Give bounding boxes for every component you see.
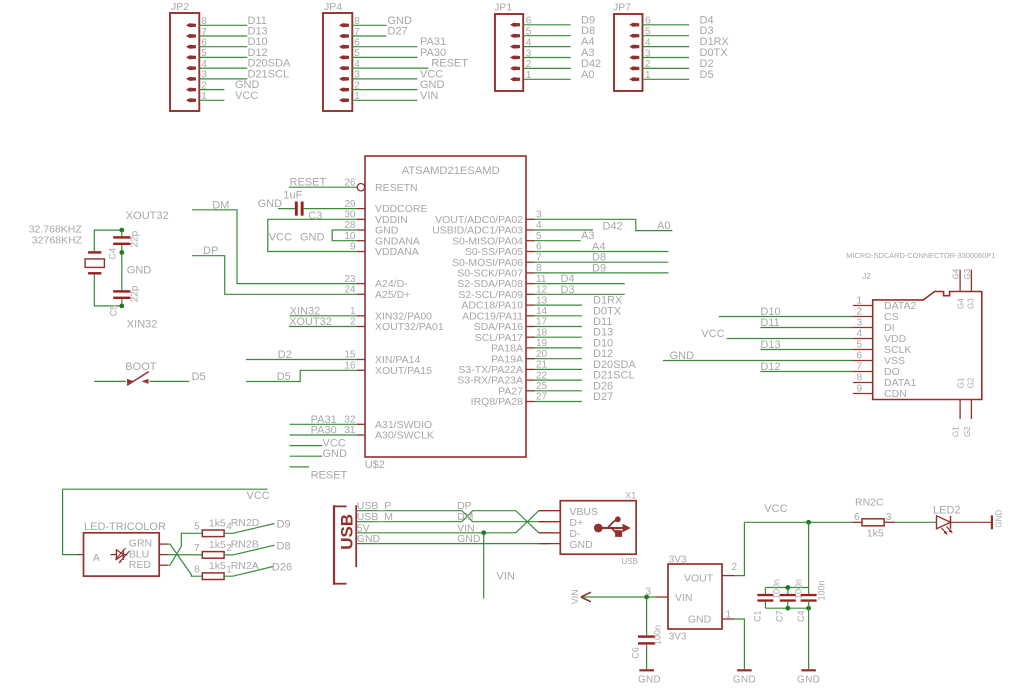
svg-text:VCC: VCC	[764, 503, 787, 515]
svg-text:7: 7	[856, 362, 862, 373]
svg-text:GND: GND	[457, 533, 481, 545]
regulator 3V3	[645, 554, 737, 642]
net A0 (JP1 pin 1)	[523, 69, 594, 81]
J2 pin 1 DATA2	[853, 296, 916, 312]
svg-text:32.768KHZ: 32.768KHZ	[29, 223, 83, 235]
svg-text:7: 7	[194, 543, 200, 554]
svg-text:D5: D5	[277, 371, 291, 383]
svg-text:4: 4	[856, 329, 862, 340]
svg-text:GND: GND	[733, 675, 756, 686]
svg-text:22p: 22p	[130, 230, 141, 247]
connector J2 MICRO-SDCARD-CONNECTOR-3300060P1	[846, 251, 995, 400]
U$2 pin 18 SCL/PA17	[475, 327, 548, 343]
svg-text:XIN32: XIN32	[127, 318, 158, 330]
svg-text:D42: D42	[603, 221, 623, 233]
net RESET (JP4 pin 4)	[352, 58, 468, 70]
U$2 pin 8 S0-SCK/PA07	[457, 263, 542, 279]
net D20SDA (JP2 pin 4)	[199, 58, 291, 70]
net D20SDA (U$2 right)	[535, 359, 637, 371]
svg-text:G4: G4	[952, 268, 961, 279]
net D3 (U$2 pin 12)	[535, 284, 625, 296]
U$2 pin 10 GNDANA	[344, 231, 420, 247]
svg-text:DP: DP	[203, 245, 218, 257]
net D1RX (JP7 pin 4)	[643, 36, 730, 48]
svg-text:RESET: RESET	[311, 470, 348, 482]
svg-text:D2: D2	[278, 349, 292, 361]
J2 pin G3 (top)	[963, 268, 976, 309]
wire VOUT to VCC rail	[734, 522, 744, 575]
svg-text:A0: A0	[657, 220, 670, 232]
svg-text:2: 2	[732, 562, 738, 573]
wire VIN down	[484, 533, 515, 599]
svg-text:RESETN: RESETN	[375, 182, 418, 194]
svg-text:1: 1	[725, 610, 731, 621]
U$2 pin 19 PA18A	[491, 338, 547, 354]
capacitor C4b 100n	[796, 580, 826, 622]
svg-text:GND: GND	[994, 510, 1003, 528]
svg-text:GND: GND	[300, 232, 325, 244]
svg-text:1uF: 1uF	[283, 190, 302, 202]
svg-text:3: 3	[886, 512, 892, 523]
svg-text:3V3: 3V3	[669, 631, 687, 642]
J2 pin 5 SCLK	[853, 340, 911, 356]
node GND junction (crystal)	[119, 250, 151, 276]
net VCC (LED section top)	[63, 489, 270, 554]
svg-text:C7: C7	[775, 610, 785, 622]
svg-text:RN2B: RN2B	[231, 539, 259, 551]
net VIN (JP4 pin 1)	[352, 90, 438, 102]
connector JP4	[323, 1, 360, 111]
U$2 pin 14 ADC19/PA11	[462, 306, 547, 322]
net D4 (JP7 pin 6)	[643, 14, 714, 26]
U$2 pin 6 S0-SS/PA05	[465, 242, 542, 258]
svg-text:100n: 100n	[816, 580, 826, 600]
svg-text:PA30: PA30	[311, 425, 337, 437]
svg-text:LED-TRICOLOR: LED-TRICOLOR	[84, 521, 166, 533]
svg-text:XOUT32/PA01: XOUT32/PA01	[375, 321, 444, 333]
U$2 pin 16 XOUT/PA15	[344, 361, 432, 377]
svg-text:G1: G1	[952, 426, 961, 437]
net GND (JP4 pin 8)	[352, 15, 412, 27]
net USB_P / DP	[356, 500, 549, 522]
svg-text:6: 6	[854, 512, 860, 523]
net D9 (RN2D)	[224, 519, 290, 534]
svg-text:USB: USB	[338, 514, 357, 550]
net RESET to U$2 pin 26	[289, 177, 357, 189]
svg-text:C3: C3	[308, 210, 322, 222]
svg-text:3: 3	[856, 318, 862, 329]
svg-text:IRQ8/PA28: IRQ8/PA28	[471, 396, 523, 408]
node VCC rail junction	[806, 520, 811, 525]
node cap bank top junction	[785, 585, 790, 590]
net D26 (U$2 right)	[535, 380, 614, 392]
svg-text:C1: C1	[752, 610, 762, 622]
svg-text:XOUT32: XOUT32	[126, 210, 169, 222]
net D11 (J2 DI)	[760, 317, 853, 329]
net A4 (U$2 pin 6)	[535, 241, 669, 253]
svg-text:1: 1	[856, 296, 862, 307]
net D9 (U$2 pin 8)	[535, 262, 669, 274]
svg-text:1k5: 1k5	[209, 560, 226, 572]
net GND (JP2 pin 2)	[199, 79, 259, 91]
svg-text:JP7: JP7	[613, 2, 631, 14]
svg-text:D26: D26	[272, 562, 292, 574]
net XIN32 to U$2 pin 1	[290, 305, 357, 317]
svg-text:D11: D11	[760, 317, 779, 329]
net D12 (J2 DO)	[760, 361, 853, 373]
net D21SCL (U$2 right)	[535, 370, 635, 382]
connector JP7	[613, 2, 651, 92]
net D26 (RN2A)	[224, 562, 292, 577]
net D2 to U$2 pin 15	[246, 349, 357, 361]
J2 pin 3 DI	[853, 318, 895, 334]
svg-text:A0: A0	[581, 69, 594, 81]
U$2 pin 2 XOUT32/PA01	[350, 317, 444, 333]
svg-text:D27: D27	[388, 26, 408, 38]
net D10 (J2 CS)	[719, 306, 853, 318]
wire regulator GND down	[734, 619, 744, 669]
U$2 pin 32 A31/SWDIO	[344, 415, 432, 431]
net stub VCC (below U$2)	[290, 437, 346, 449]
svg-text:1k5: 1k5	[867, 527, 884, 539]
svg-text:8: 8	[194, 564, 200, 575]
J2 pin 6 VSS	[853, 351, 905, 367]
U$2 pin 11 S2-SDA/PA08	[457, 274, 547, 290]
svg-text:RN2C: RN2C	[855, 497, 884, 509]
net PA30 (JP4 pin 5)	[352, 47, 446, 59]
net D21SCL (JP2 pin 3)	[199, 68, 289, 80]
net XOUT32 to U$2 pin 2	[289, 316, 357, 328]
net VCC (JP2 pin 1)	[199, 90, 258, 102]
wire GRN pin to RN2A	[168, 544, 203, 576]
svg-text:G3: G3	[963, 268, 972, 279]
net 5V / VIN	[356, 511, 539, 535]
net D13 (U$2 right)	[535, 327, 614, 339]
net D8 (RN2B)	[224, 541, 290, 555]
net USB_M / DM	[356, 511, 539, 533]
svg-text:JP1: JP1	[494, 2, 512, 14]
J2 pin G4 (top)	[952, 268, 966, 309]
svg-text:GND: GND	[670, 350, 695, 362]
wire RN2C to LED2	[895, 521, 936, 523]
net PA31 (JP4 pin 6)	[352, 36, 446, 48]
svg-text:VIN: VIN	[420, 90, 438, 102]
ground symbol (LED2, rotated)	[992, 510, 1004, 530]
ground symbol (cap bank)	[797, 670, 820, 685]
capacitor C5 22p	[109, 285, 141, 316]
supply VIN arrow	[570, 589, 591, 604]
net D2 (JP7 pin 2)	[643, 58, 714, 70]
node XIN32 junction	[119, 304, 157, 331]
svg-text:D5: D5	[192, 371, 206, 383]
svg-text:GND: GND	[357, 533, 381, 545]
connector X1 USB	[539, 490, 638, 566]
net D0TX (JP7 pin 3)	[643, 47, 729, 59]
U$2 pin 24 A25/D+	[344, 285, 410, 301]
svg-text:RN2D: RN2D	[231, 517, 260, 529]
svg-text:5: 5	[856, 340, 862, 351]
net PA31 (U$2 pin 32)	[290, 414, 357, 426]
LED LED-TRICOLOR	[78, 521, 168, 576]
net VCC rail	[744, 503, 851, 522]
node VIN/C6 junction	[644, 595, 649, 600]
svg-text:D9: D9	[277, 519, 291, 531]
crystal 32.768KHZ	[29, 223, 122, 306]
net stub GND (below U$2)	[290, 448, 347, 460]
U$2 pin 22 S3-RX/PA23A	[457, 370, 547, 386]
svg-text:GND: GND	[638, 675, 661, 686]
svg-text:C6: C6	[631, 647, 641, 659]
svg-text:D3: D3	[561, 284, 575, 296]
svg-text:VIN: VIN	[570, 589, 580, 604]
resistor RN2D 1k5	[194, 517, 260, 537]
USB logo icon	[594, 516, 631, 537]
svg-text:1k5: 1k5	[209, 517, 226, 529]
U$2 pin 20 PA19A	[491, 349, 547, 365]
net D10 (JP2 pin 6)	[199, 36, 267, 48]
net stub RESET (below U$2)	[290, 467, 348, 482]
J2 pin 2 CS	[853, 307, 899, 323]
svg-text:2: 2	[856, 307, 862, 318]
J2 pin 9 CDN	[853, 384, 907, 400]
net D27 (U$2 right)	[535, 391, 614, 403]
net VCC (JP4 pin 3)	[352, 68, 443, 80]
U$2 pin 17 SDA/PA16	[474, 317, 548, 333]
capacitor C6 100n	[631, 597, 663, 669]
svg-text:USB: USB	[622, 557, 638, 566]
net VCC loop (U$2 pins 30,9)	[268, 219, 357, 251]
net D8 (U$2 pin 7)	[535, 252, 669, 264]
svg-text:ATSAMD21ESAMD: ATSAMD21ESAMD	[402, 165, 500, 177]
U$2 pin 28 GND	[344, 220, 398, 236]
net D13 (J2 SCLK)	[760, 339, 853, 351]
wire VIN to regulator	[582, 596, 656, 598]
J2 pin 7 DO	[853, 362, 900, 378]
resistor RN2C 1k5	[851, 497, 895, 540]
svg-text:D13: D13	[760, 339, 780, 351]
resistor RN2B 1k5	[194, 539, 259, 558]
IC U$2 ATSAMD21ESAMD body	[365, 156, 526, 471]
svg-text:GND: GND	[127, 264, 152, 276]
ground symbol (regulator)	[733, 670, 756, 685]
svg-text:5: 5	[194, 522, 200, 533]
J2 pin G2 (bottom)	[963, 377, 976, 437]
net A4 (JP1 pin 4)	[523, 36, 594, 48]
svg-text:CDN: CDN	[884, 388, 907, 400]
resistor RN2A 1k5	[194, 560, 259, 580]
node XOUT32 junction	[119, 210, 168, 232]
connector USB (bracket)	[334, 505, 357, 585]
svg-text:GND: GND	[797, 675, 820, 686]
U$2 pin 29 VDDCORE	[344, 199, 427, 215]
svg-text:JP4: JP4	[324, 1, 342, 13]
svg-text:VDDANA: VDDANA	[375, 246, 419, 258]
svg-text:C4: C4	[796, 610, 806, 622]
svg-text:JP2: JP2	[171, 1, 189, 13]
net DP to U$2 pin 24	[192, 245, 357, 294]
svg-text:DM: DM	[212, 199, 229, 211]
svg-text:A30/SWCLK: A30/SWCLK	[375, 430, 434, 442]
net D27 (JP4 pin 7)	[352, 26, 407, 38]
connector JP2	[170, 1, 207, 111]
svg-text:D9: D9	[592, 262, 606, 274]
U$2 pin 7 S0-MOSI/PA06	[452, 252, 542, 268]
svg-text:100n: 100n	[653, 625, 663, 645]
svg-text:GND: GND	[688, 614, 712, 626]
svg-text:VCC: VCC	[269, 232, 292, 244]
wire LED2 to GND	[951, 521, 992, 523]
svg-text:G1: G1	[957, 377, 966, 388]
node VIN junction	[481, 530, 486, 535]
U$2 pin 26 RESETN	[344, 177, 417, 193]
net GND loop (U$2 pins 28,10)	[300, 230, 357, 244]
node cap bank bottom junctions	[785, 606, 811, 611]
net D11 (JP2 pin 8)	[199, 15, 267, 27]
net D10 (U$2 right)	[535, 337, 614, 349]
U$2 pin 1 XIN32/PA00	[350, 306, 432, 322]
svg-text:VCC: VCC	[701, 328, 724, 340]
capacitor C7 100n	[775, 579, 804, 622]
svg-text:VIN: VIN	[497, 571, 515, 583]
svg-text:VIN: VIN	[675, 592, 693, 604]
net D5 to U$2 pin 16	[246, 370, 357, 383]
svg-text:A25/D+: A25/D+	[375, 289, 410, 301]
svg-text:GND: GND	[569, 539, 593, 551]
wire RED pin to RN2D	[168, 533, 203, 565]
wire cap bank to GND	[808, 601, 810, 670]
switch BOOT	[94, 361, 189, 385]
svg-text:D12: D12	[760, 361, 780, 373]
net GND (JP4 pin 2)	[352, 79, 444, 91]
U$2 pin 5 S0-MISO/PA04	[452, 231, 542, 247]
net VCC (J2 VDD)	[701, 328, 853, 340]
svg-text:C4: C4	[108, 248, 118, 260]
U$2 pin 3 VOUT/ADC0/PA02	[435, 210, 542, 226]
net D0TX (U$2 right)	[535, 305, 622, 317]
svg-text:9: 9	[856, 384, 862, 395]
svg-text:G2: G2	[963, 426, 972, 437]
J2 pin 8 DATA1	[853, 373, 916, 389]
svg-text:22p: 22p	[130, 285, 141, 302]
svg-text:U$2: U$2	[365, 459, 385, 471]
wire GND node to C5	[121, 253, 123, 291]
U$2 pin 21 S3-TX/PA22A	[458, 360, 547, 376]
U$2 pin 9 VDDANA	[350, 242, 419, 258]
net D5 (JP7 pin 1)	[643, 69, 714, 81]
svg-text:G4: G4	[957, 298, 966, 309]
svg-text:8: 8	[856, 373, 862, 384]
svg-text:LED2: LED2	[933, 504, 961, 516]
svg-text:D27: D27	[593, 391, 613, 403]
net A3 (U$2 pin 5)	[535, 230, 595, 242]
net GND (USB)	[356, 533, 549, 545]
svg-text:GND: GND	[323, 448, 348, 460]
net D12 (JP2 pin 5)	[199, 47, 267, 59]
svg-text:3: 3	[645, 587, 651, 598]
U$2 pin 12 S2-SCL/PA09	[458, 285, 547, 301]
capacitor C4 22p	[108, 230, 141, 259]
capacitor C3 1uF with GND	[258, 190, 357, 222]
svg-text:D5: D5	[700, 69, 714, 81]
net D12 (U$2 right)	[535, 348, 614, 360]
net D4 (U$2 pin 11)	[535, 273, 625, 285]
U$2 pin 30 VDDIN	[344, 210, 407, 226]
svg-text:X1: X1	[625, 490, 636, 500]
net D8 (JP1 pin 5)	[523, 25, 595, 37]
svg-text:1k5: 1k5	[209, 539, 226, 551]
net D11 (U$2 right)	[535, 316, 613, 328]
net D3 (JP7 pin 5)	[643, 25, 714, 37]
net D13 (JP2 pin 7)	[199, 26, 267, 38]
U$2 pin 13 ADC18/PA10	[461, 295, 547, 311]
svg-text:D8: D8	[277, 541, 291, 553]
svg-text:VOUT: VOUT	[684, 572, 714, 584]
svg-text:VCC: VCC	[247, 490, 270, 502]
LED LED2	[933, 504, 961, 534]
svg-text:RESET: RESET	[290, 177, 327, 189]
svg-text:32768KHZ: 32768KHZ	[32, 235, 83, 247]
svg-text:G3: G3	[966, 298, 975, 309]
svg-text:XOUT32: XOUT32	[289, 316, 332, 328]
net DM to U$2 pin 23	[192, 199, 357, 283]
net PA30 (U$2 pin 31)	[290, 425, 357, 437]
U$2 pin 23 A24/D-	[344, 274, 408, 290]
svg-text:RN2A: RN2A	[231, 560, 259, 572]
net D42 (U$2 pin 4)	[535, 221, 623, 233]
capacitor bank rails	[765, 588, 808, 609]
U$2 pin 25 PA27	[498, 381, 547, 397]
capacitor C1 100n	[752, 579, 781, 622]
net D5 (BOOT switch)	[192, 371, 206, 383]
U$2 pin 27 IRQ8/PA28	[471, 392, 548, 408]
net A3 (JP1 pin 3)	[523, 47, 594, 59]
svg-text:6: 6	[856, 351, 862, 362]
net D9 (JP1 pin 6)	[523, 14, 595, 26]
J2 pin 4 VDD	[853, 329, 907, 345]
ground symbol (C6)	[638, 670, 661, 685]
svg-text:RED: RED	[129, 559, 152, 571]
svg-text:A: A	[93, 552, 100, 564]
svg-text:G2: G2	[966, 377, 975, 388]
wire BLU pin to RN2B	[168, 554, 203, 556]
connector JP1	[494, 2, 532, 92]
svg-text:MICRO-SDCARD-CONNECTOR-3300060: MICRO-SDCARD-CONNECTOR-3300060P1	[846, 251, 995, 260]
svg-text:J2: J2	[862, 272, 871, 281]
net D42 (JP1 pin 2)	[523, 58, 601, 70]
U$2 pin 4 USBID/ADC1/PA03	[432, 220, 542, 236]
net GND (J2 VSS)	[663, 350, 853, 362]
U$2 pin 15 XIN/PA14	[344, 350, 420, 366]
svg-text:XOUT/PA15: XOUT/PA15	[375, 365, 432, 377]
net D1RX (U$2 right)	[535, 295, 624, 307]
svg-text:C5: C5	[109, 305, 119, 317]
svg-text:VCC: VCC	[235, 90, 258, 102]
svg-text:BOOT: BOOT	[125, 361, 156, 373]
J2 pin G1 (bottom)	[952, 377, 966, 437]
U$2 pin 31 A30/SWCLK	[344, 425, 434, 441]
wire VCC down to capacitor bank	[808, 522, 810, 595]
net A0 (U$2 pin 3, elbow)	[535, 219, 673, 232]
